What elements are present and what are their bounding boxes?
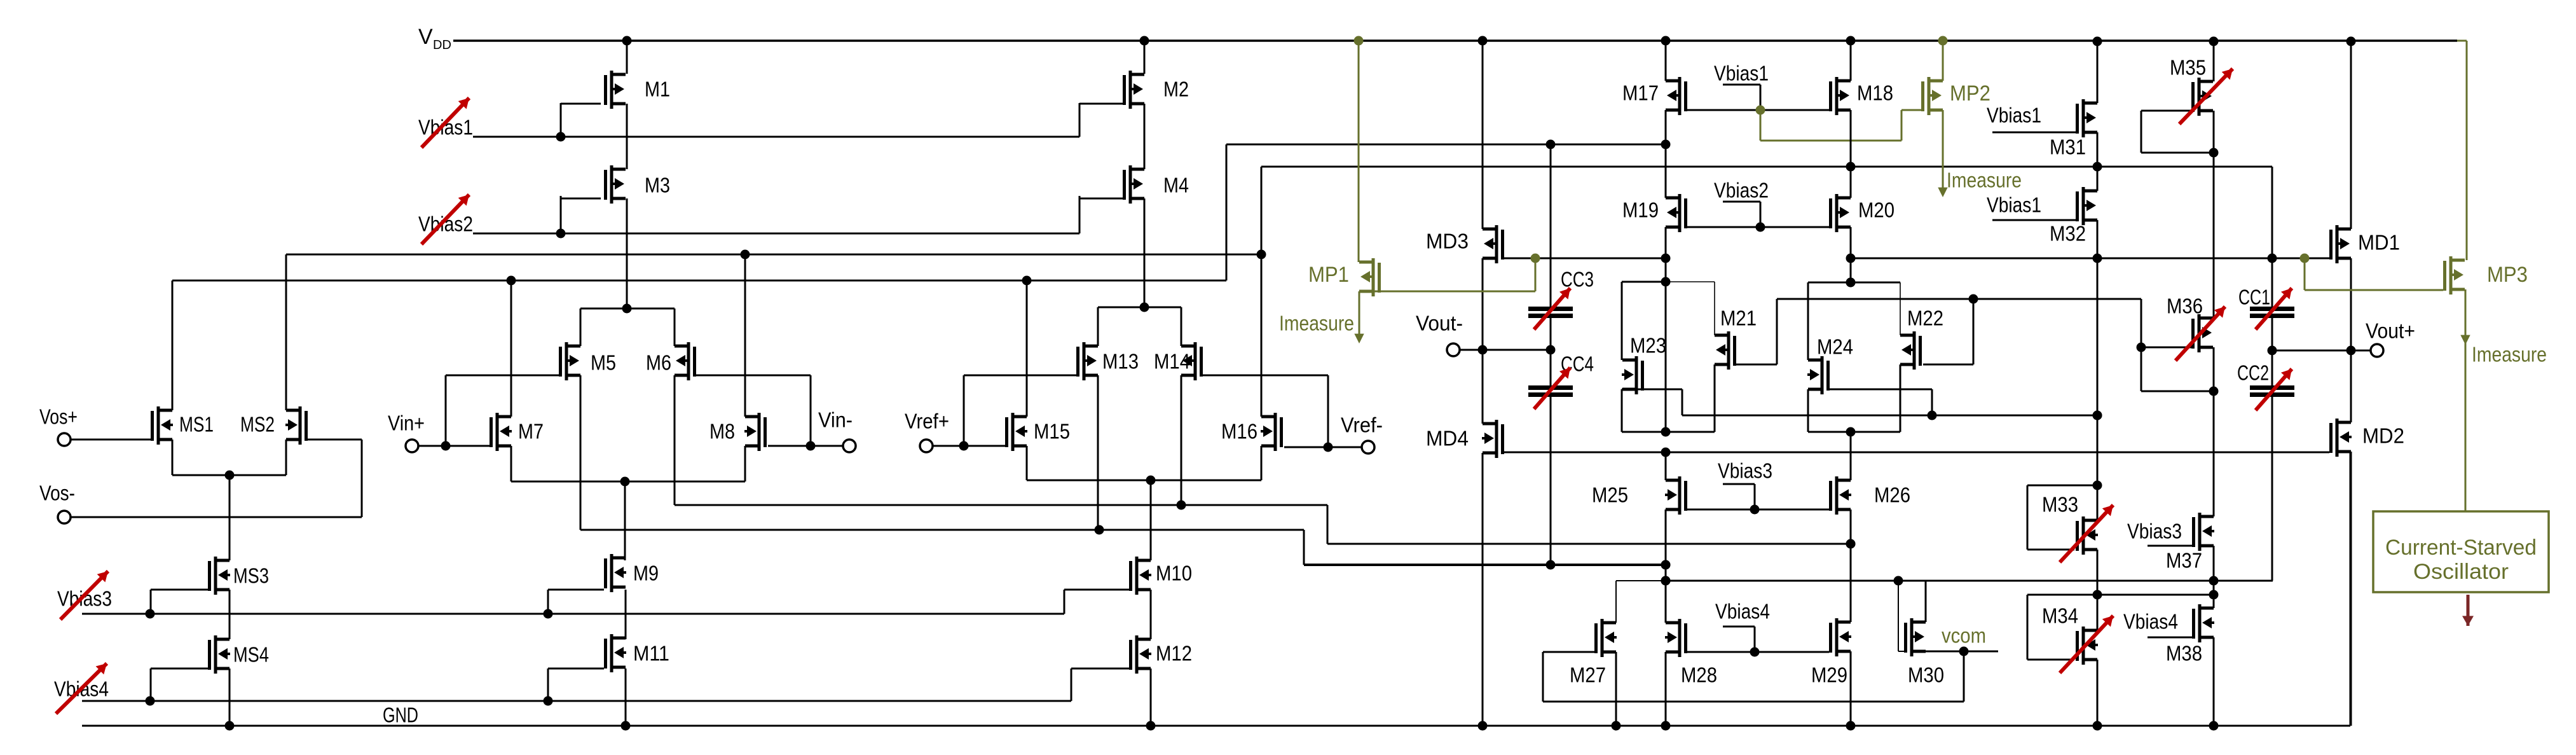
svg-text:Vbias4: Vbias4 — [1715, 600, 1770, 623]
svg-text:MS1: MS1 — [179, 413, 214, 436]
svg-text:M14: M14 — [1154, 350, 1190, 373]
svg-text:Vbias2: Vbias2 — [1714, 179, 1769, 202]
svg-text:MD2: MD2 — [2362, 424, 2404, 448]
svg-text:M30: M30 — [1908, 663, 1944, 687]
svg-text:M19: M19 — [1622, 198, 1659, 222]
svg-text:MS2: MS2 — [240, 413, 275, 436]
svg-text:Vbias2: Vbias2 — [418, 212, 473, 236]
svg-text:DD: DD — [433, 38, 451, 52]
svg-text:M27: M27 — [1570, 663, 1606, 687]
svg-text:M3: M3 — [645, 174, 670, 197]
svg-text:M12: M12 — [1156, 642, 1192, 665]
svg-text:Vin-: Vin- — [818, 408, 853, 432]
svg-text:Vin+: Vin+ — [388, 412, 425, 435]
svg-text:MD4: MD4 — [1426, 427, 1469, 450]
svg-text:CC2: CC2 — [2237, 361, 2269, 385]
svg-text:Vbias1: Vbias1 — [1987, 193, 2041, 217]
svg-text:M28: M28 — [1681, 663, 1717, 687]
svg-text:CC1: CC1 — [2238, 286, 2270, 309]
svg-text:Vbias1: Vbias1 — [418, 116, 473, 139]
svg-text:Vbias1: Vbias1 — [1987, 104, 2041, 127]
svg-text:Vbias1: Vbias1 — [1714, 62, 1769, 85]
svg-text:M23: M23 — [1630, 334, 1666, 357]
svg-text:M29: M29 — [1811, 663, 1847, 687]
svg-text:V: V — [418, 25, 433, 49]
svg-text:Vout-: Vout- — [1416, 312, 1463, 335]
svg-text:M1: M1 — [645, 78, 670, 101]
svg-text:M9: M9 — [633, 562, 659, 585]
svg-text:M2: M2 — [1163, 78, 1189, 101]
svg-text:M7: M7 — [518, 420, 544, 443]
svg-text:Vos-: Vos- — [39, 481, 75, 505]
svg-text:M26: M26 — [1874, 483, 1910, 507]
svg-text:M25: M25 — [1592, 483, 1628, 507]
svg-text:Vref-: Vref- — [1341, 413, 1383, 437]
svg-text:MD1: MD1 — [2358, 231, 2400, 254]
svg-text:Vos+: Vos+ — [39, 405, 78, 429]
svg-text:M34: M34 — [2042, 604, 2078, 628]
svg-text:M31: M31 — [2050, 135, 2086, 159]
svg-text:M20: M20 — [1858, 198, 1894, 222]
svg-text:M10: M10 — [1156, 562, 1192, 585]
svg-text:Vout+: Vout+ — [2366, 319, 2415, 343]
svg-text:M6: M6 — [646, 351, 671, 375]
svg-text:MP2: MP2 — [1950, 81, 1990, 106]
svg-text:M33: M33 — [2042, 493, 2078, 516]
svg-text:Vbias3: Vbias3 — [57, 587, 112, 611]
svg-text:MS3: MS3 — [233, 564, 269, 588]
svg-text:M17: M17 — [1622, 81, 1659, 105]
svg-text:Vbias3: Vbias3 — [2127, 520, 2182, 543]
svg-text:M24: M24 — [1817, 335, 1853, 359]
svg-text:M37: M37 — [2166, 549, 2202, 572]
svg-text:Imeasure: Imeasure — [2472, 343, 2547, 366]
svg-text:M35: M35 — [2170, 56, 2206, 80]
svg-text:M8: M8 — [709, 420, 735, 443]
svg-text:M13: M13 — [1102, 350, 1139, 373]
svg-text:M38: M38 — [2166, 642, 2202, 665]
svg-text:MD3: MD3 — [1426, 230, 1469, 253]
svg-text:M16: M16 — [1221, 420, 1257, 443]
svg-text:M21: M21 — [1720, 307, 1757, 330]
svg-text:MS4: MS4 — [233, 643, 269, 667]
svg-text:Imeasure: Imeasure — [1279, 312, 1354, 335]
svg-text:Vref+: Vref+ — [905, 410, 949, 433]
svg-text:CC3: CC3 — [1561, 268, 1594, 291]
svg-text:M15: M15 — [1034, 420, 1070, 443]
svg-text:M22: M22 — [1907, 307, 1943, 330]
svg-text:M5: M5 — [591, 351, 616, 375]
svg-text:M18: M18 — [1857, 81, 1893, 105]
svg-text:M4: M4 — [1163, 174, 1189, 197]
svg-text:M36: M36 — [2167, 294, 2203, 318]
svg-text:M32: M32 — [2050, 222, 2086, 246]
svg-text:Current-Starved: Current-Starved — [2385, 536, 2537, 560]
svg-text:Vbias3: Vbias3 — [1718, 459, 1772, 483]
svg-text:M11: M11 — [633, 642, 669, 665]
svg-text:Oscillator: Oscillator — [2413, 560, 2509, 584]
svg-text:GND: GND — [383, 703, 418, 727]
svg-text:vcom: vcom — [1942, 624, 1986, 648]
svg-text:Imeasure: Imeasure — [1947, 169, 2022, 192]
svg-text:MP1: MP1 — [1308, 263, 1349, 287]
svg-text:MP3: MP3 — [2487, 263, 2528, 287]
svg-text:Vbias4: Vbias4 — [2123, 610, 2178, 634]
